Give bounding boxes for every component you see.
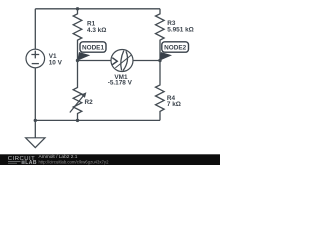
wire voltmeter left lead [78, 60, 112, 62]
svg-text:4.3 kΩ: 4.3 kΩ [87, 27, 106, 34]
resistor R4 [156, 61, 165, 121]
svg-text:R2: R2 [85, 99, 94, 106]
voltage source V1 [26, 49, 45, 68]
resistor R3 [156, 9, 165, 61]
junction dot bottom rail / V1 [34, 119, 37, 122]
wire V1 top lead [34, 9, 36, 49]
node NODE1 flag [77, 42, 106, 61]
junction dot NODE2 [158, 59, 161, 62]
svg-text:10 V: 10 V [49, 60, 63, 67]
voltmeter VM1 [111, 50, 133, 72]
svg-text:5.951 kΩ: 5.951 kΩ [167, 27, 193, 34]
svg-text:http://circuitlab.com/c/kw6gzu: http://circuitlab.com/c/kw6gzu43x7y2 [39, 159, 110, 164]
wire voltmeter right lead [133, 60, 160, 62]
svg-text:-5.178 V: -5.178 V [108, 80, 133, 87]
footer CircuitLab logo [8, 156, 37, 166]
svg-text:NODE2: NODE2 [164, 45, 186, 52]
svg-text:NODE1: NODE1 [82, 45, 104, 52]
svg-text:LAB: LAB [25, 160, 37, 165]
ground [26, 120, 45, 147]
wire top rail [35, 8, 160, 10]
wire V1 bottom lead [34, 68, 36, 121]
node NODE2 flag [159, 42, 188, 61]
footer bar [0, 154, 220, 165]
junction dot bottom rail / R2 [76, 119, 79, 122]
potentiometer R2 [70, 61, 87, 121]
svg-text:7 kΩ: 7 kΩ [167, 101, 181, 108]
wire bottom rail [35, 119, 160, 121]
junction dot top rail / R1 [76, 7, 79, 10]
resistor R1 [73, 9, 82, 61]
junction dot NODE1 [76, 59, 79, 62]
